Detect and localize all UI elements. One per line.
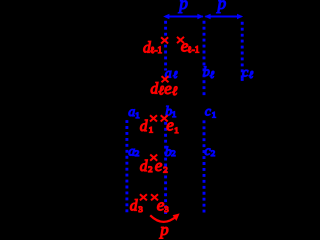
svg-text:3: 3 xyxy=(164,204,169,214)
svg-text:1: 1 xyxy=(212,110,216,120)
svg-text:ℓ: ℓ xyxy=(210,70,215,81)
arrowhead of curved arrow xyxy=(173,213,180,221)
svg-text:3: 3 xyxy=(138,204,143,214)
arrowhead right of second p-span xyxy=(237,14,243,20)
dotted column c_l (top right, x=242.2) xyxy=(241,22,244,79)
svg-text:1: 1 xyxy=(174,125,178,135)
svg-text:p: p xyxy=(216,0,227,13)
svg-text:d: d xyxy=(140,158,148,175)
cross at d_1 xyxy=(150,115,157,121)
arrowhead right of first p-span xyxy=(197,14,203,20)
arrowhead left of first p-span xyxy=(163,14,169,20)
dotted column b_1 / b_2 (lower, x=165.6) xyxy=(164,122,167,215)
svg-text:2: 2 xyxy=(171,148,175,158)
svg-text:p: p xyxy=(177,0,188,13)
svg-text:d: d xyxy=(130,197,138,214)
curved arrow p at bottom xyxy=(150,215,176,222)
svg-text:d: d xyxy=(140,118,148,135)
cross at d_3 xyxy=(140,194,147,200)
svg-text:e: e xyxy=(164,79,172,98)
svg-text:2: 2 xyxy=(163,165,167,175)
cross at e_(l-1) xyxy=(177,37,184,43)
svg-text:2: 2 xyxy=(211,148,215,158)
svg-text:c: c xyxy=(205,104,212,119)
svg-text:d: d xyxy=(150,80,158,97)
svg-text:ℓ-1: ℓ-1 xyxy=(150,45,162,55)
cross at e_1 on column b_1 xyxy=(161,115,168,121)
cross at d_(l-1) on column a_l xyxy=(161,37,168,43)
dotted column a_1 / a_2 (left, x=126.9) xyxy=(125,120,128,214)
svg-text:2: 2 xyxy=(135,148,139,158)
svg-text:2: 2 xyxy=(148,164,152,174)
svg-text:ℓ: ℓ xyxy=(249,70,254,81)
dotted column c_1 / c_2 segment (x=204, below c_1) xyxy=(203,120,206,213)
dotted column a_l (top, x=165.6) xyxy=(164,21,167,71)
svg-text:ℓ: ℓ xyxy=(173,70,178,81)
svg-text:1: 1 xyxy=(149,125,153,135)
last dot of column c_l below label xyxy=(241,78,244,81)
cross at d_l e_l below a_l xyxy=(162,76,169,82)
arrow span p left segment xyxy=(165,16,203,18)
cross at d_2 e_2 xyxy=(150,155,157,161)
svg-text:ℓ: ℓ xyxy=(172,83,178,98)
arrow span p right segment xyxy=(205,16,241,18)
arrowhead left of second p-span xyxy=(204,14,210,20)
dotted column b_l segment (x=204, above c_1) xyxy=(203,21,206,97)
svg-text:e: e xyxy=(155,156,163,175)
cross at e_3 xyxy=(151,194,158,200)
svg-text:a: a xyxy=(128,105,135,120)
svg-text:p: p xyxy=(159,220,168,239)
svg-text:ℓ-1: ℓ-1 xyxy=(187,45,199,55)
svg-text:e: e xyxy=(166,115,174,134)
